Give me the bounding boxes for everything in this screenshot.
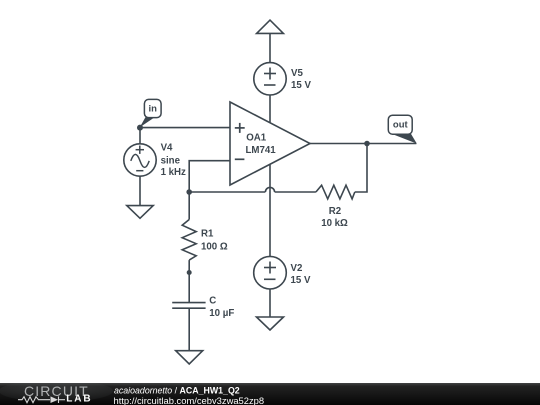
wire output — [310, 143, 416, 145]
svg-text:10 µF: 10 µF — [209, 308, 234, 319]
wire R1 to C — [188, 260, 190, 302]
wire op-amp V- pin to V2 — [269, 165, 271, 257]
voltage source V4 sine — [124, 144, 156, 176]
svg-text:1 kHz: 1 kHz — [161, 167, 186, 178]
svg-text:V2: V2 — [291, 263, 303, 274]
node flag in — [140, 99, 161, 127]
node flag out — [388, 115, 417, 143]
wire feedback to R2 — [275, 191, 316, 193]
wire V5 to op-amp V+ pin — [269, 95, 271, 122]
svg-text:C: C — [209, 296, 216, 307]
junction output node — [364, 141, 370, 147]
footer bar — [0, 380, 540, 405]
wire V2 to ground — [269, 289, 271, 317]
svg-text:15 V: 15 V — [291, 275, 311, 286]
wire V4 to ground — [139, 176, 141, 205]
svg-text:http://circuitlab.com/cebv3zwa: http://circuitlab.com/cebv3zwa52zp8 — [114, 395, 265, 405]
svg-text:100 Ω: 100 Ω — [201, 242, 228, 253]
power flag VCC top — [257, 20, 284, 33]
wire R2 to output node — [355, 144, 367, 193]
svg-text:15 V: 15 V — [291, 80, 311, 91]
capacitor C — [172, 303, 205, 309]
junction in node — [137, 125, 143, 131]
svg-text:LM741: LM741 — [246, 145, 277, 156]
junction feedback node — [186, 189, 192, 195]
ground under V2 — [257, 317, 284, 330]
resistor R2 — [316, 185, 355, 199]
wire minus input — [189, 161, 230, 192]
svg-text:in: in — [148, 103, 157, 114]
svg-text:V5: V5 — [291, 68, 303, 79]
svg-text:OA1: OA1 — [246, 133, 267, 144]
svg-text:LAB: LAB — [66, 394, 92, 405]
wire C to ground — [188, 308, 190, 351]
wire in to V4 — [139, 128, 141, 144]
voltage source V2 — [254, 256, 287, 289]
svg-text:10 kΩ: 10 kΩ — [321, 218, 348, 229]
svg-text:R1: R1 — [201, 229, 214, 240]
svg-text:R2: R2 — [329, 206, 341, 217]
op-amp U1 OA1 LM741 — [230, 102, 310, 185]
voltage source V5 — [254, 63, 286, 95]
junction R1-C — [187, 270, 192, 275]
ground under C — [176, 351, 203, 364]
logo resistor-diode squiggle — [18, 396, 65, 403]
svg-text:V4: V4 — [161, 143, 173, 154]
resistor R1 — [182, 220, 196, 261]
wire VCC to V5 — [269, 33, 271, 62]
wire R1 top — [188, 192, 190, 220]
wire plus input — [140, 127, 230, 129]
wire feedback left segment — [189, 191, 265, 193]
svg-text:sine: sine — [161, 155, 181, 166]
ground under V4 — [127, 206, 153, 219]
wire hop over V- wire — [265, 187, 274, 192]
svg-text:out: out — [393, 120, 409, 131]
